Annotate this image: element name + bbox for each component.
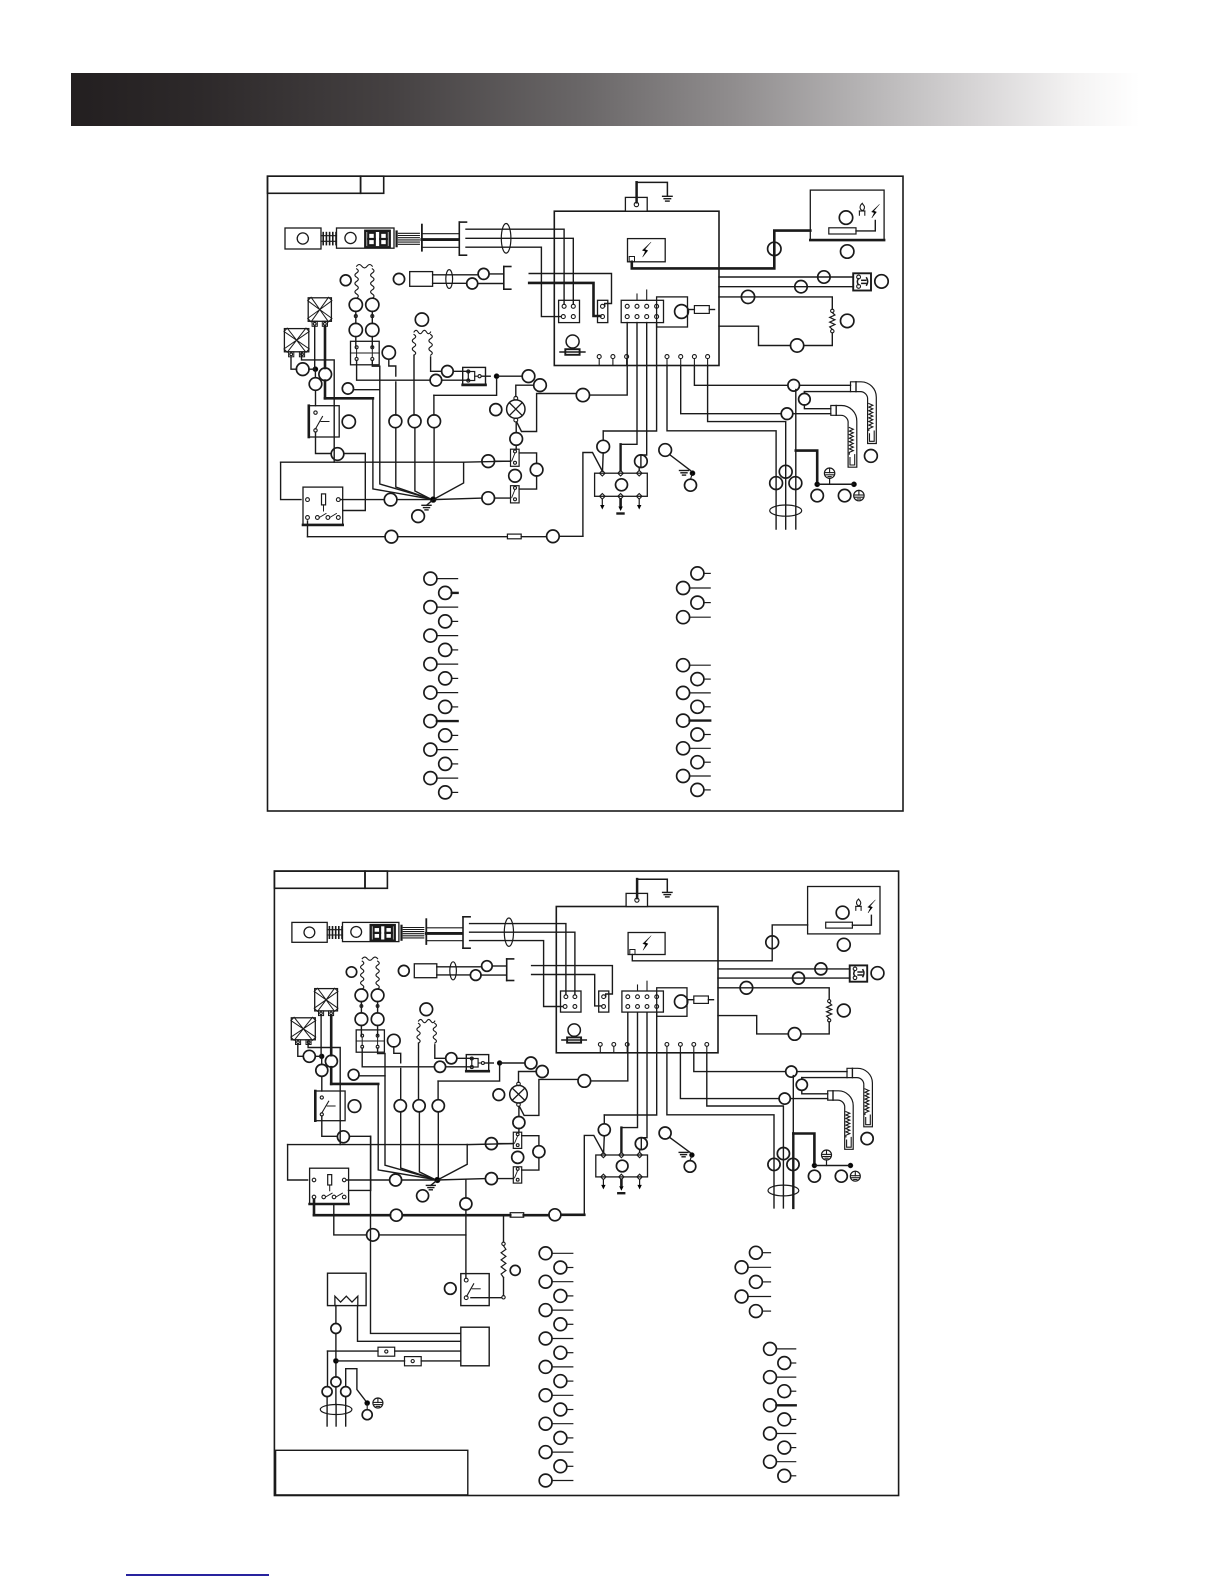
legend item — [778, 1413, 791, 1426]
node 6 — [875, 275, 888, 288]
legend item — [778, 1385, 791, 1398]
node 32 — [393, 273, 404, 284]
node 31 — [346, 967, 356, 977]
node 51 — [534, 379, 547, 392]
node 34 — [467, 278, 478, 289]
node 15 — [770, 477, 783, 490]
node 49 — [432, 1100, 444, 1112]
legend item — [691, 567, 704, 580]
wire switch run down — [371, 1136, 461, 1333]
bake igniter element — [849, 428, 853, 455]
cable oval b — [320, 1405, 352, 1415]
node 22 — [485, 1138, 497, 1150]
bake heater HTR1 — [328, 1273, 367, 1305]
wire heater left leg — [335, 1306, 337, 1324]
plug bracket — [503, 267, 505, 290]
wire board to lamp resistor — [719, 297, 832, 309]
spark generator box — [628, 933, 665, 955]
legend item — [691, 700, 704, 713]
cable marker oval — [504, 918, 513, 946]
wire valve return — [434, 379, 497, 396]
node 16 — [789, 477, 802, 490]
wire heater right leg — [358, 1306, 461, 1342]
valve junction — [497, 1061, 502, 1066]
wire fan M2b — [302, 353, 335, 462]
wire junction drop — [440, 1145, 468, 1179]
wire fan M1 bold — [324, 326, 327, 368]
legend item — [691, 596, 704, 609]
legend item — [424, 601, 437, 614]
node b5 — [362, 1410, 372, 1420]
earth terminal — [822, 1150, 832, 1160]
node 28 — [659, 1127, 671, 1139]
indicator lamp — [568, 1024, 580, 1036]
board fuse F1 — [688, 309, 694, 311]
spark HT lead — [632, 231, 811, 269]
node 21 — [513, 1117, 525, 1129]
timer display — [371, 925, 395, 941]
wire sensor pair — [433, 274, 479, 276]
connector CN2 — [599, 991, 609, 1012]
node 33 — [478, 268, 489, 279]
wire to transformer right — [667, 1053, 774, 1208]
spark HT lead — [632, 925, 807, 961]
timer ribbon cable — [398, 232, 419, 234]
node 4 — [818, 271, 830, 283]
wire ignition right — [641, 323, 647, 455]
node 44 — [389, 415, 402, 428]
legend item — [677, 686, 690, 699]
wire fuse riser — [584, 1135, 603, 1214]
wire to plug — [492, 965, 506, 967]
wire neutral run — [603, 323, 656, 431]
wire board to door switch — [719, 276, 853, 278]
wire valve return — [438, 1065, 500, 1081]
legend item — [691, 673, 704, 686]
wire igniter inner — [804, 391, 850, 393]
wire thermostat L — [470, 924, 566, 995]
board LED — [675, 305, 689, 319]
oven relay K2 — [303, 487, 343, 525]
wire node56 — [354, 389, 380, 391]
wire ignition mid — [621, 323, 637, 445]
wire board to door switch — [718, 968, 850, 970]
thermal fuse F2 — [507, 534, 521, 539]
node 45 — [415, 313, 428, 326]
broil coil — [412, 335, 415, 356]
wire to transformer mid — [708, 366, 786, 530]
wire coil2 right — [431, 357, 442, 371]
node 10 — [788, 380, 800, 392]
legend item — [439, 700, 452, 713]
node 9 — [788, 1028, 801, 1041]
legend item — [439, 757, 452, 770]
node 6 — [871, 967, 884, 980]
capillary probe holder — [425, 919, 427, 944]
node 50 — [522, 370, 535, 383]
wire relay out — [346, 1179, 389, 1181]
wire lamp resistor return — [718, 1016, 788, 1034]
board terminal pins — [598, 1043, 602, 1047]
node 42 — [366, 323, 379, 336]
title block cell 1b — [274, 871, 365, 888]
wire main run — [281, 461, 464, 463]
timer display — [365, 231, 389, 248]
cooling fan M1 — [308, 298, 331, 322]
node 54 — [390, 1174, 402, 1186]
legend item — [424, 772, 437, 785]
wires CN3 risers — [637, 985, 639, 991]
wire S1 out — [316, 432, 332, 453]
wire to bake igniter — [681, 366, 782, 414]
legend item — [539, 1247, 552, 1260]
flame sensing module box — [810, 190, 884, 240]
capillary probe holder — [421, 225, 423, 251]
earth terminal 2 — [854, 490, 864, 500]
node 13 — [861, 1133, 873, 1145]
node 49 — [428, 415, 441, 428]
node 4 — [815, 963, 827, 975]
timer output bar — [400, 926, 402, 940]
node 11 — [799, 393, 811, 405]
probe bracket — [458, 222, 460, 255]
oven lamp resistor R2 — [831, 309, 834, 312]
probe bracket — [462, 917, 464, 948]
oven lamp resistor R2 — [828, 1000, 831, 1003]
earth wire — [635, 182, 638, 202]
legend item — [677, 770, 690, 783]
thermal cutout S1 — [315, 1091, 345, 1121]
legend item — [778, 1357, 791, 1370]
wire coil pins — [355, 311, 357, 323]
spark outputs — [601, 499, 603, 507]
timer knob — [345, 232, 356, 243]
board LED — [675, 995, 688, 1008]
wire to earth dot — [669, 1137, 690, 1152]
plug bracket — [506, 959, 508, 981]
ignition module A1 — [595, 473, 648, 496]
wire to transformer left — [795, 390, 797, 451]
node 2 — [839, 211, 852, 224]
timer display digits 88 — [374, 927, 381, 933]
ground G1 — [663, 195, 673, 197]
node 26 — [635, 1138, 647, 1150]
legend item — [424, 686, 437, 699]
wire thermostat N — [466, 238, 573, 304]
node 48 — [442, 366, 454, 378]
node 30 — [385, 530, 398, 543]
legend item — [439, 786, 452, 799]
wire plug to connector top — [532, 966, 613, 997]
cable oval 3 — [768, 1185, 799, 1196]
node 43 — [382, 346, 395, 359]
thermal switch S5 — [461, 1274, 489, 1306]
gas valve Y1 — [466, 1055, 488, 1072]
legend item — [764, 1427, 777, 1440]
legend item — [424, 658, 437, 671]
broil igniter HE1 — [851, 382, 877, 444]
node 24 — [512, 1151, 524, 1163]
legend item — [554, 1261, 567, 1274]
legend item — [424, 629, 437, 642]
wire node51 — [519, 1072, 537, 1083]
node 25 — [485, 1173, 497, 1185]
bond junction — [815, 482, 820, 487]
node 8 — [841, 314, 854, 327]
thermostat TH1 dial — [304, 927, 315, 938]
node 16 — [787, 1158, 799, 1170]
node 8 — [837, 1004, 850, 1017]
legend item — [539, 1304, 552, 1317]
node 46 — [430, 374, 442, 386]
legend item — [439, 643, 452, 656]
thermostat ribbed coupler — [327, 929, 342, 931]
legend item — [554, 1318, 567, 1331]
node 35 — [547, 530, 560, 543]
legend item — [677, 714, 690, 727]
node 41 — [349, 323, 362, 336]
ground G3 — [427, 500, 434, 506]
node 51 — [536, 1066, 548, 1078]
flame rod resistor — [826, 922, 853, 928]
wire transformer feed 2 — [336, 1360, 405, 1362]
legend item — [539, 1389, 552, 1402]
wire coil pins — [360, 1002, 362, 1013]
display module box — [657, 988, 687, 1017]
legend item — [677, 659, 690, 672]
fan junction dot — [313, 367, 318, 372]
node b1 — [331, 1324, 341, 1334]
node b3 — [322, 1387, 332, 1397]
wire transformer feed 1 — [328, 1350, 379, 1352]
legend item — [539, 1332, 552, 1345]
wire coil2 left — [413, 355, 415, 415]
node 19 — [578, 1075, 591, 1088]
wire sensor pair — [437, 966, 482, 968]
footer link underline — [126, 1574, 269, 1576]
legend item — [554, 1403, 567, 1416]
node 1 — [766, 936, 779, 949]
cable marker oval 2 — [446, 270, 453, 289]
node 15 — [768, 1158, 780, 1170]
board fuse F1 — [688, 999, 694, 1001]
wire lamp feed — [590, 323, 627, 396]
node 17 — [811, 489, 823, 501]
node 53 — [337, 1131, 349, 1143]
overheat sensor coil — [361, 961, 364, 989]
node 42 — [371, 1013, 384, 1026]
header gradient bar — [71, 73, 1140, 126]
wire plug to connector bottom — [529, 283, 600, 316]
legend item — [764, 1399, 777, 1412]
earth junction b — [365, 1401, 370, 1406]
legend item — [764, 1343, 777, 1356]
node b7 — [367, 1229, 379, 1241]
node 12 — [781, 408, 793, 420]
node 50 — [525, 1057, 537, 1069]
control board outline — [554, 211, 719, 365]
earth terminal b — [373, 1398, 383, 1408]
sensor body — [410, 272, 433, 287]
node 30 — [390, 1209, 402, 1221]
legend item — [750, 1276, 763, 1289]
board terminal pins — [597, 355, 601, 359]
wire valve out — [485, 1062, 494, 1064]
node 46 — [434, 1061, 445, 1072]
wire to broil igniter — [694, 1053, 785, 1072]
legend item — [439, 586, 452, 599]
door switch S4 — [853, 273, 871, 290]
wire junction right — [433, 498, 482, 500]
node 14 — [779, 465, 792, 478]
wire to plug — [489, 273, 504, 275]
legend item — [439, 672, 452, 685]
node 41 — [355, 1013, 368, 1026]
main junction — [435, 1177, 440, 1182]
wire lamp feed — [591, 1012, 628, 1081]
node 53 — [331, 448, 344, 461]
legend item — [439, 729, 452, 742]
node 21 — [510, 433, 523, 446]
legend item — [554, 1346, 567, 1359]
bake igniter element — [846, 1112, 850, 1137]
node 19 — [576, 389, 589, 402]
node 17 — [808, 1170, 820, 1182]
wire neutral stub — [603, 1115, 605, 1124]
wire to earth dot — [670, 455, 691, 471]
indicator lamp — [566, 335, 579, 348]
node 56 — [342, 383, 353, 394]
wire fuse riser — [583, 453, 602, 537]
node 20 — [493, 1089, 505, 1101]
node b6 — [445, 1283, 457, 1295]
earth dot — [690, 1153, 695, 1158]
thermal fuse wire — [307, 521, 309, 537]
node 2 — [836, 906, 849, 919]
wire board to door switch 2 — [719, 286, 853, 288]
lamp switch S2 — [513, 1132, 521, 1148]
thermal cutout S1 — [309, 406, 339, 437]
line voltage terminal box — [625, 197, 647, 211]
legend item — [424, 715, 437, 728]
bake igniter HE2 — [831, 405, 857, 467]
node 7 — [741, 290, 754, 303]
ignition module lamp — [616, 1160, 628, 1172]
broil igniter element — [869, 404, 873, 431]
thermostat control TH1 body — [292, 922, 327, 942]
lamp switch S2 — [511, 449, 520, 466]
wire thermostat N — [470, 932, 575, 994]
wire node43 down — [394, 1047, 401, 1063]
heater junction — [334, 1359, 339, 1364]
wire resistor to S5 — [471, 1297, 502, 1299]
connector CN3 — [622, 991, 664, 1012]
ground G2 — [679, 1151, 688, 1153]
node 54 — [384, 493, 397, 506]
wire to bake igniter — [680, 1053, 779, 1099]
node 28 — [659, 444, 672, 457]
node 3 — [841, 245, 854, 258]
node 13 — [865, 450, 878, 463]
convection fan M2 — [284, 329, 308, 352]
cooling fan M1 — [315, 989, 338, 1011]
wire lamp resistor return — [719, 326, 791, 345]
wire valve out — [481, 375, 490, 377]
broil igniter HE1 — [847, 1068, 872, 1127]
node 27 — [598, 1124, 610, 1136]
cable marker oval — [501, 224, 511, 254]
node 37 — [309, 378, 322, 391]
node 25 — [482, 492, 495, 505]
legend item — [539, 1446, 552, 1459]
wire thermostat aux — [470, 941, 563, 1007]
wire node43 down — [389, 359, 396, 376]
display module box — [657, 297, 688, 327]
wire ignition mid — [621, 1012, 637, 1127]
node 37 — [316, 1064, 328, 1076]
node 40 — [366, 298, 379, 311]
wire bridge — [346, 1369, 366, 1401]
convection fan M2 — [291, 1018, 315, 1040]
door switch S4 — [850, 965, 868, 981]
bake igniter HE2 — [828, 1091, 854, 1150]
node 23 — [530, 463, 543, 476]
wire main down — [281, 462, 301, 499]
legend item — [554, 1375, 567, 1388]
node 31 — [340, 275, 351, 286]
wire to transformer left — [792, 1076, 794, 1134]
wire to transformer mid — [707, 1053, 784, 1208]
timer display digits 88 — [368, 233, 375, 239]
fan junction dot — [319, 1054, 324, 1059]
wire relay out — [340, 499, 384, 501]
node 34 — [470, 970, 481, 981]
connector CN3 — [621, 300, 663, 322]
spark icon — [868, 900, 875, 913]
earth terminal 2 — [850, 1171, 860, 1181]
wire neutral run — [604, 1012, 656, 1115]
node 52 — [348, 1100, 361, 1113]
node 9 — [791, 339, 804, 352]
wire to broil igniter — [694, 366, 787, 386]
wire thermostat L — [466, 229, 564, 304]
spark generator box — [628, 239, 666, 262]
spark transformer T1 — [461, 1327, 489, 1366]
node 52 — [342, 415, 355, 428]
capillary tube — [426, 932, 461, 935]
wire plug to connector bottom — [532, 975, 602, 1006]
thermostat TH1 dial — [297, 233, 308, 244]
node 7 — [740, 982, 753, 995]
ignition module lamp — [616, 479, 628, 491]
door lock switch S3 — [511, 486, 520, 503]
wire board to door switch 2 — [718, 977, 850, 979]
ground G3 — [431, 1180, 438, 1185]
node 39 — [349, 298, 362, 311]
legend item — [735, 1261, 748, 1274]
node 32 — [398, 965, 409, 976]
earth terminal — [824, 468, 834, 478]
wire fan M1 bold — [330, 1016, 333, 1055]
gas valve Y1 — [463, 367, 486, 385]
bond junction — [812, 1163, 817, 1168]
wire neutral stub — [602, 431, 604, 440]
node 38 — [319, 368, 332, 381]
connector CN1 — [559, 300, 580, 322]
wire node51 — [516, 385, 534, 396]
node 14 — [777, 1148, 789, 1160]
oval tail center — [335, 1405, 337, 1427]
